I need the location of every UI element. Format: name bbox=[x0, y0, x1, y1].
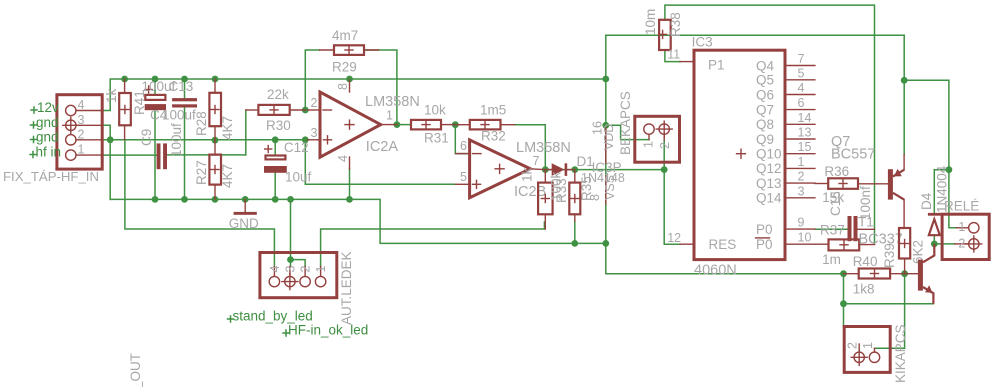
junction bbox=[901, 270, 908, 277]
svg-text:1: 1 bbox=[314, 266, 328, 273]
ground bbox=[234, 199, 257, 214]
svg-text:11: 11 bbox=[667, 48, 680, 62]
junction bbox=[946, 166, 953, 173]
wire R41 to led line bbox=[125, 140, 275, 267]
junction bbox=[346, 196, 353, 203]
svg-text:1: 1 bbox=[958, 220, 965, 234]
connector X1 pin 1 bbox=[66, 143, 103, 161]
svg-text:Q5: Q5 bbox=[756, 73, 774, 88]
resistor R35 bbox=[569, 170, 580, 221]
label KIKAPCS bbox=[893, 324, 908, 383]
resistor R40 bbox=[844, 269, 905, 279]
resistor R29 bbox=[320, 45, 379, 55]
ic IC3 pin 13 (Q9) bbox=[756, 126, 815, 147]
connector RELE pin1 bbox=[957, 220, 979, 234]
connector AUT.LEDEK pin 4 bbox=[268, 266, 282, 287]
wire supply drop x605 bbox=[606, 35, 844, 274]
svg-text:1: 1 bbox=[861, 342, 875, 349]
label IC2B pin7 bbox=[533, 154, 540, 168]
label R29 value 4m7 bbox=[332, 28, 358, 43]
svg-text:P1: P1 bbox=[708, 58, 725, 73]
ic IC3 pin 9 (P0) bbox=[756, 216, 815, 237]
label IC2B name bbox=[514, 184, 546, 200]
svg-text:12v: 12v bbox=[37, 100, 59, 115]
label R30 name bbox=[266, 118, 291, 133]
junction bbox=[394, 121, 401, 128]
label IC3 P1 bbox=[708, 58, 725, 73]
ic IC3 pin11 bbox=[667, 48, 694, 62]
connector KIKAPCS pin2 bbox=[846, 342, 868, 365]
wire D1 output line bbox=[545, 169, 664, 171]
wire C4 bottom lead bbox=[154, 110, 156, 200]
net label gnd a bbox=[31, 115, 59, 130]
svg-text:RES: RES bbox=[709, 237, 737, 252]
svg-text:Q13: Q13 bbox=[756, 176, 782, 191]
wire R35 bottom lead bbox=[574, 221, 576, 243]
svg-text:2: 2 bbox=[846, 342, 860, 349]
svg-text:HF-in_ok_led: HF-in_ok_led bbox=[288, 323, 368, 338]
junction bbox=[602, 122, 609, 129]
svg-text:R32: R32 bbox=[481, 129, 506, 144]
svg-text:4: 4 bbox=[268, 266, 282, 273]
label R37 name bbox=[820, 223, 845, 238]
ic IC3 pin 14 (Q8) bbox=[756, 111, 815, 132]
svg-text:P0: P0 bbox=[756, 237, 773, 252]
ic IC3 pin 1 (Q12) bbox=[756, 155, 815, 176]
svg-text:10uf: 10uf bbox=[285, 170, 312, 185]
label C12 name bbox=[284, 140, 309, 155]
svg-text:10: 10 bbox=[798, 231, 812, 245]
label IC3P bbox=[592, 160, 622, 175]
op-amp IC2B bbox=[456, 140, 546, 198]
svg-text:gnd: gnd bbox=[36, 115, 59, 130]
junction bbox=[602, 240, 609, 247]
wire opamp1 out bbox=[397, 124, 411, 126]
svg-text:1: 1 bbox=[798, 155, 805, 169]
net label stand_by_led bbox=[228, 309, 313, 324]
svg-text:R29: R29 bbox=[332, 60, 357, 75]
svg-text:4: 4 bbox=[798, 81, 805, 95]
wire relay pin1 drop bbox=[949, 170, 957, 228]
junction bbox=[602, 76, 609, 83]
connector RELE pin2 bbox=[955, 236, 982, 252]
svg-text:R28: R28 bbox=[194, 111, 209, 136]
connector X1 pin 4 bbox=[66, 98, 103, 116]
connector AUT.LEDEK pin 1 bbox=[314, 266, 328, 287]
junction bbox=[931, 241, 938, 248]
ic IC3 pin 3 (Q14) bbox=[756, 184, 815, 205]
svg-text:4060N: 4060N bbox=[694, 263, 737, 279]
svg-text:1: 1 bbox=[386, 109, 393, 123]
svg-text:2: 2 bbox=[958, 237, 965, 251]
label C15 name bbox=[828, 191, 843, 216]
connector BEKAPCS box bbox=[635, 116, 680, 162]
svg-text:10k: 10k bbox=[424, 103, 446, 118]
svg-text:Q8: Q8 bbox=[756, 117, 774, 132]
connector RELE box bbox=[942, 214, 989, 259]
wire relay feed bbox=[904, 80, 949, 169]
svg-text:R39: R39 bbox=[882, 243, 897, 268]
label R39 name bbox=[882, 243, 897, 268]
svg-text:100k: 100k bbox=[549, 171, 564, 201]
svg-text:IC2A: IC2A bbox=[366, 139, 399, 155]
junction bbox=[840, 300, 847, 307]
svg-text:1m5: 1m5 bbox=[480, 103, 506, 118]
svg-text:100uf: 100uf bbox=[169, 123, 184, 157]
junction bbox=[346, 76, 353, 83]
ic IC3 pin 7 (Q4) bbox=[756, 52, 815, 73]
wire top B bbox=[606, 34, 904, 36]
svg-text:IC3P: IC3P bbox=[592, 160, 622, 175]
svg-text:LM358N: LM358N bbox=[365, 94, 420, 110]
resistor R38 bbox=[659, 20, 671, 50]
label R29 name bbox=[332, 60, 357, 75]
svg-text:R36: R36 bbox=[824, 164, 849, 179]
svg-text:9: 9 bbox=[798, 216, 805, 230]
wire bekapcs pin2 to res bbox=[664, 140, 680, 244]
junction bbox=[212, 137, 219, 144]
ic IC3 4060N box bbox=[694, 50, 785, 259]
wire D4 cathode branch bbox=[934, 170, 949, 214]
label IC3 RES bbox=[709, 237, 737, 252]
wire C13 bottom lead bbox=[184, 108, 186, 200]
svg-text:100uf: 100uf bbox=[162, 108, 196, 123]
capacitor C9 bbox=[157, 143, 167, 169]
svg-text:Q9: Q9 bbox=[756, 132, 774, 147]
svg-text:2: 2 bbox=[798, 170, 805, 184]
wire kikapcs pin1 to base node bbox=[875, 274, 905, 349]
svg-text:C12: C12 bbox=[284, 140, 309, 155]
wire led pin3 drop bbox=[290, 199, 292, 266]
svg-text:FIX_TÁP-HF_IN: FIX_TÁP-HF_IN bbox=[3, 169, 99, 184]
label IC3 4060N bbox=[694, 263, 737, 279]
label IC2A pin8 bbox=[336, 83, 350, 90]
resistor R39 bbox=[899, 228, 910, 274]
wire junction to pin6 bbox=[455, 125, 469, 154]
transistor Q7 BC557 bbox=[888, 155, 904, 229]
junction bbox=[212, 76, 219, 83]
label R30 value 22k bbox=[267, 87, 289, 102]
svg-text:Q7: Q7 bbox=[756, 102, 774, 117]
wire relay pin2 lead bbox=[934, 243, 955, 245]
power pin VDD IC3P bbox=[591, 121, 617, 163]
ic IC3 pin 2 (Q13) bbox=[756, 170, 815, 191]
power pin VSS IC3P bbox=[588, 175, 617, 204]
label R35 value 100k bbox=[549, 171, 564, 201]
svg-text:R40: R40 bbox=[853, 254, 878, 269]
connector KIKAPCS box bbox=[844, 327, 890, 373]
label R40 name bbox=[853, 254, 878, 269]
connector AUT.LEDEK pin 3 bbox=[282, 266, 298, 290]
wire 12v rail bbox=[102, 79, 606, 111]
wire R38 to pin11 bbox=[665, 50, 680, 62]
junction bbox=[272, 136, 279, 143]
svg-text:2: 2 bbox=[78, 127, 85, 141]
label IC2B pin6 bbox=[460, 139, 467, 153]
svg-text:R38: R38 bbox=[668, 12, 683, 37]
svg-text:3: 3 bbox=[311, 126, 318, 140]
label R40 value 1k8 bbox=[853, 282, 875, 297]
connector X1 pin 2 bbox=[66, 127, 103, 145]
svg-text:AUT.LEDEK: AUT.LEDEK bbox=[339, 251, 354, 325]
ic IC3 pin 10 (P0B) bbox=[756, 231, 815, 252]
ic IC3 pin 15 (Q10) bbox=[756, 140, 815, 161]
label C15 value 100nf bbox=[858, 186, 873, 220]
svg-text:C9: C9 bbox=[139, 129, 154, 146]
svg-text:VDD: VDD bbox=[602, 124, 616, 150]
svg-text:6: 6 bbox=[460, 139, 467, 153]
connector X1 pin 3 bbox=[66, 113, 103, 131]
svg-text:5: 5 bbox=[798, 66, 805, 80]
svg-text:C15: C15 bbox=[828, 191, 843, 216]
svg-text:1: 1 bbox=[642, 141, 656, 148]
junction bbox=[287, 196, 294, 203]
resistor R27 bbox=[209, 140, 221, 199]
label IC2B pin5 bbox=[460, 170, 467, 184]
svg-text:8: 8 bbox=[588, 194, 602, 201]
wire T2 emitter to kikapcs bbox=[844, 303, 934, 305]
label IC2A pin1 bbox=[386, 109, 393, 123]
wire C9 to R30 node bbox=[167, 154, 246, 156]
label D1 name bbox=[577, 154, 594, 169]
label GND bbox=[229, 216, 259, 231]
label R39 value 6K2 bbox=[911, 240, 926, 264]
svg-text:4K7: 4K7 bbox=[220, 116, 235, 140]
svg-text:3: 3 bbox=[798, 184, 805, 198]
label D4 value 1N4004 bbox=[935, 165, 950, 213]
resistor R36 bbox=[815, 178, 888, 189]
connector BEKAPCS pin1 bbox=[642, 124, 656, 148]
wire top A to R38 and osc bbox=[665, 5, 875, 244]
diode D1 bbox=[545, 163, 575, 176]
svg-text:15: 15 bbox=[798, 140, 812, 154]
label C4 row1 bbox=[142, 79, 194, 94]
label Q7 name bbox=[831, 134, 850, 150]
svg-text:R27: R27 bbox=[194, 160, 209, 185]
svg-text:P0: P0 bbox=[756, 222, 773, 237]
label FIX_TAP-HF_IN bbox=[3, 169, 99, 184]
svg-text:GND: GND bbox=[229, 216, 259, 231]
svg-text:1m: 1m bbox=[822, 252, 841, 267]
label R27 value 4K7 bbox=[220, 164, 235, 188]
label R36 name bbox=[824, 164, 849, 179]
diode D4 bbox=[928, 213, 941, 235]
wire hf-in to C9 bbox=[102, 154, 156, 156]
svg-text:5: 5 bbox=[460, 170, 467, 184]
junction bbox=[840, 270, 847, 277]
label R32 value 1m5 bbox=[480, 103, 506, 118]
wire C13 top lead bbox=[184, 79, 186, 98]
wire Q7 emitter drop bbox=[903, 35, 905, 154]
resistor R41 bbox=[119, 79, 131, 140]
label R33 name bbox=[554, 178, 569, 203]
svg-text:10m: 10m bbox=[643, 9, 658, 35]
svg-text:3: 3 bbox=[283, 266, 297, 273]
label R38 value 10m bbox=[643, 9, 658, 35]
svg-text:7: 7 bbox=[798, 52, 805, 66]
junction bbox=[272, 196, 279, 203]
label R32 name bbox=[481, 129, 506, 144]
label IC2A pin2 bbox=[311, 96, 318, 110]
label R31 name bbox=[424, 131, 449, 146]
label IC2A name bbox=[366, 139, 399, 155]
svg-text:6: 6 bbox=[798, 96, 805, 110]
label R41 name bbox=[132, 90, 147, 115]
label RELE bbox=[944, 199, 979, 214]
label R36 value 15k bbox=[822, 190, 844, 205]
junction bbox=[181, 76, 188, 83]
resistor R31 bbox=[411, 120, 455, 129]
connector AUT.LEDEK box bbox=[260, 253, 337, 298]
label R38 name bbox=[668, 12, 683, 37]
svg-text:1k8: 1k8 bbox=[853, 282, 875, 297]
label R28 value 4K7 bbox=[220, 116, 235, 140]
svg-text:1k: 1k bbox=[104, 88, 119, 103]
label IC2A pin3 bbox=[311, 126, 318, 140]
junction bbox=[242, 196, 249, 203]
junction bbox=[452, 121, 459, 128]
svg-text:stand_by_led: stand_by_led bbox=[233, 309, 313, 324]
connector X1 pin3 origin cross bbox=[63, 117, 79, 133]
svg-text:Q12: Q12 bbox=[756, 161, 782, 176]
svg-text:KIKAPCS: KIKAPCS bbox=[893, 324, 908, 383]
label IC3 bbox=[692, 35, 713, 50]
junction bbox=[661, 166, 668, 173]
connector KIKAPCS pin1 bbox=[861, 342, 880, 362]
label R37 value 1m bbox=[822, 252, 841, 267]
label T1 value BC337 bbox=[859, 232, 903, 248]
junction bbox=[302, 107, 309, 114]
capacitor C13 bbox=[172, 98, 197, 107]
label T1 name bbox=[858, 215, 874, 230]
label D1 value 1N4148 bbox=[581, 171, 625, 185]
connector AUT.LEDEK pin 2 bbox=[299, 266, 313, 287]
svg-text:C13: C13 bbox=[169, 79, 194, 94]
label R28 name bbox=[194, 111, 209, 136]
wire node to R30 bbox=[245, 110, 247, 155]
resistor R37 bbox=[815, 239, 875, 250]
ic IC3 origin cross bbox=[737, 149, 746, 158]
wire vdd to bekapcs pin1 bbox=[606, 125, 649, 139]
svg-text:1: 1 bbox=[78, 143, 85, 157]
net label hf in bbox=[30, 145, 61, 160]
svg-text:T1: T1 bbox=[858, 215, 874, 230]
transistor T2 BC337 bbox=[905, 244, 935, 304]
svg-text:RELÉ: RELÉ bbox=[944, 199, 979, 214]
label IC2A pin4 bbox=[336, 155, 350, 162]
svg-text:Q6: Q6 bbox=[756, 87, 774, 102]
label D4 name bbox=[919, 192, 934, 210]
label C9 value bbox=[169, 123, 184, 157]
wire pin9 to C16 bbox=[815, 228, 848, 230]
svg-text:12: 12 bbox=[667, 231, 681, 245]
svg-text:8: 8 bbox=[336, 83, 350, 90]
svg-text:Q14: Q14 bbox=[756, 191, 782, 206]
svg-text:2: 2 bbox=[311, 96, 318, 110]
svg-text:IC2B: IC2B bbox=[514, 184, 546, 200]
junction bbox=[901, 77, 908, 84]
wire C4 top lead bbox=[154, 79, 156, 95]
capacitor C12 bbox=[264, 146, 287, 173]
ic IC3 pin 5 (Q5) bbox=[756, 66, 815, 87]
capacitor C4 bbox=[145, 86, 166, 110]
svg-text:VSS: VSS bbox=[603, 175, 617, 200]
junction bbox=[287, 256, 294, 263]
svg-text:hf in: hf in bbox=[36, 145, 62, 160]
wire gnd rail bbox=[110, 199, 606, 243]
junction bbox=[152, 196, 159, 203]
connector BEKAPCS pin2 bbox=[656, 121, 672, 149]
connector X1 FIX_TAP-HF_IN box bbox=[57, 95, 102, 169]
wire kikapcs pin2 drop bbox=[843, 274, 845, 327]
resistor R32 bbox=[455, 120, 514, 129]
svg-text:D4: D4 bbox=[919, 192, 934, 210]
net label HF-in_ok_led bbox=[283, 323, 368, 338]
label C12 value 10uf bbox=[285, 170, 312, 185]
svg-text:4m7: 4m7 bbox=[332, 28, 358, 43]
label P_OUT bbox=[128, 353, 143, 387]
wire pin5 line bbox=[305, 140, 455, 185]
svg-text:BEKAPCS: BEKAPCS bbox=[618, 91, 633, 155]
wire led pin3 to pin2 jog bbox=[291, 260, 306, 267]
op-amp IC2A bbox=[308, 80, 397, 169]
wire R32 to out node bbox=[515, 125, 546, 170]
svg-text:Q4: Q4 bbox=[756, 58, 775, 73]
wire led pin1 line bbox=[321, 222, 545, 267]
svg-text:14: 14 bbox=[798, 111, 812, 125]
wire opamp1 pin4 to gnd rail bbox=[349, 169, 351, 199]
svg-text:R31: R31 bbox=[424, 131, 449, 146]
svg-text:2: 2 bbox=[299, 266, 313, 273]
wire feedback right bbox=[364, 50, 397, 125]
label IC2A LM358N bbox=[365, 94, 420, 110]
junction bbox=[152, 76, 159, 83]
label IC2B LM358N bbox=[516, 140, 571, 156]
svg-text:gnd: gnd bbox=[36, 130, 59, 145]
junction bbox=[542, 166, 549, 173]
svg-text:13: 13 bbox=[798, 126, 812, 140]
label AUT.LEDEK bbox=[339, 251, 354, 325]
junction bbox=[181, 196, 188, 203]
svg-text:P_OUT: P_OUT bbox=[128, 353, 143, 387]
ic IC3 pin 6 (Q7) bbox=[756, 96, 815, 117]
junction bbox=[212, 196, 219, 203]
junction bbox=[571, 166, 578, 173]
svg-text:R30: R30 bbox=[266, 118, 291, 133]
label C4 row2 bbox=[150, 108, 196, 123]
label Q7 value BC557 bbox=[831, 147, 875, 163]
label R31 value 10k bbox=[424, 103, 446, 118]
wire C12 top lead bbox=[274, 140, 276, 156]
svg-text:Q10: Q10 bbox=[756, 147, 782, 162]
wire gnd pin2 stub bbox=[102, 139, 110, 141]
label R41 value 1k bbox=[104, 88, 119, 103]
net label 12v bbox=[31, 100, 59, 115]
svg-text:IC3: IC3 bbox=[692, 35, 713, 50]
junction bbox=[107, 136, 114, 143]
net label gnd b bbox=[31, 130, 59, 145]
resistor R28 bbox=[209, 79, 221, 140]
wire C12 bottom lead bbox=[274, 173, 276, 200]
label R33 value 1k bbox=[520, 167, 535, 182]
junction bbox=[302, 136, 309, 143]
label BEKAPCS bbox=[618, 91, 633, 155]
svg-text:BC557: BC557 bbox=[831, 147, 875, 163]
svg-text:LM358N: LM358N bbox=[516, 140, 571, 156]
resistor R33 bbox=[538, 170, 553, 229]
wire D4 anode to node bbox=[933, 236, 935, 244]
label C9 name bbox=[139, 129, 154, 146]
